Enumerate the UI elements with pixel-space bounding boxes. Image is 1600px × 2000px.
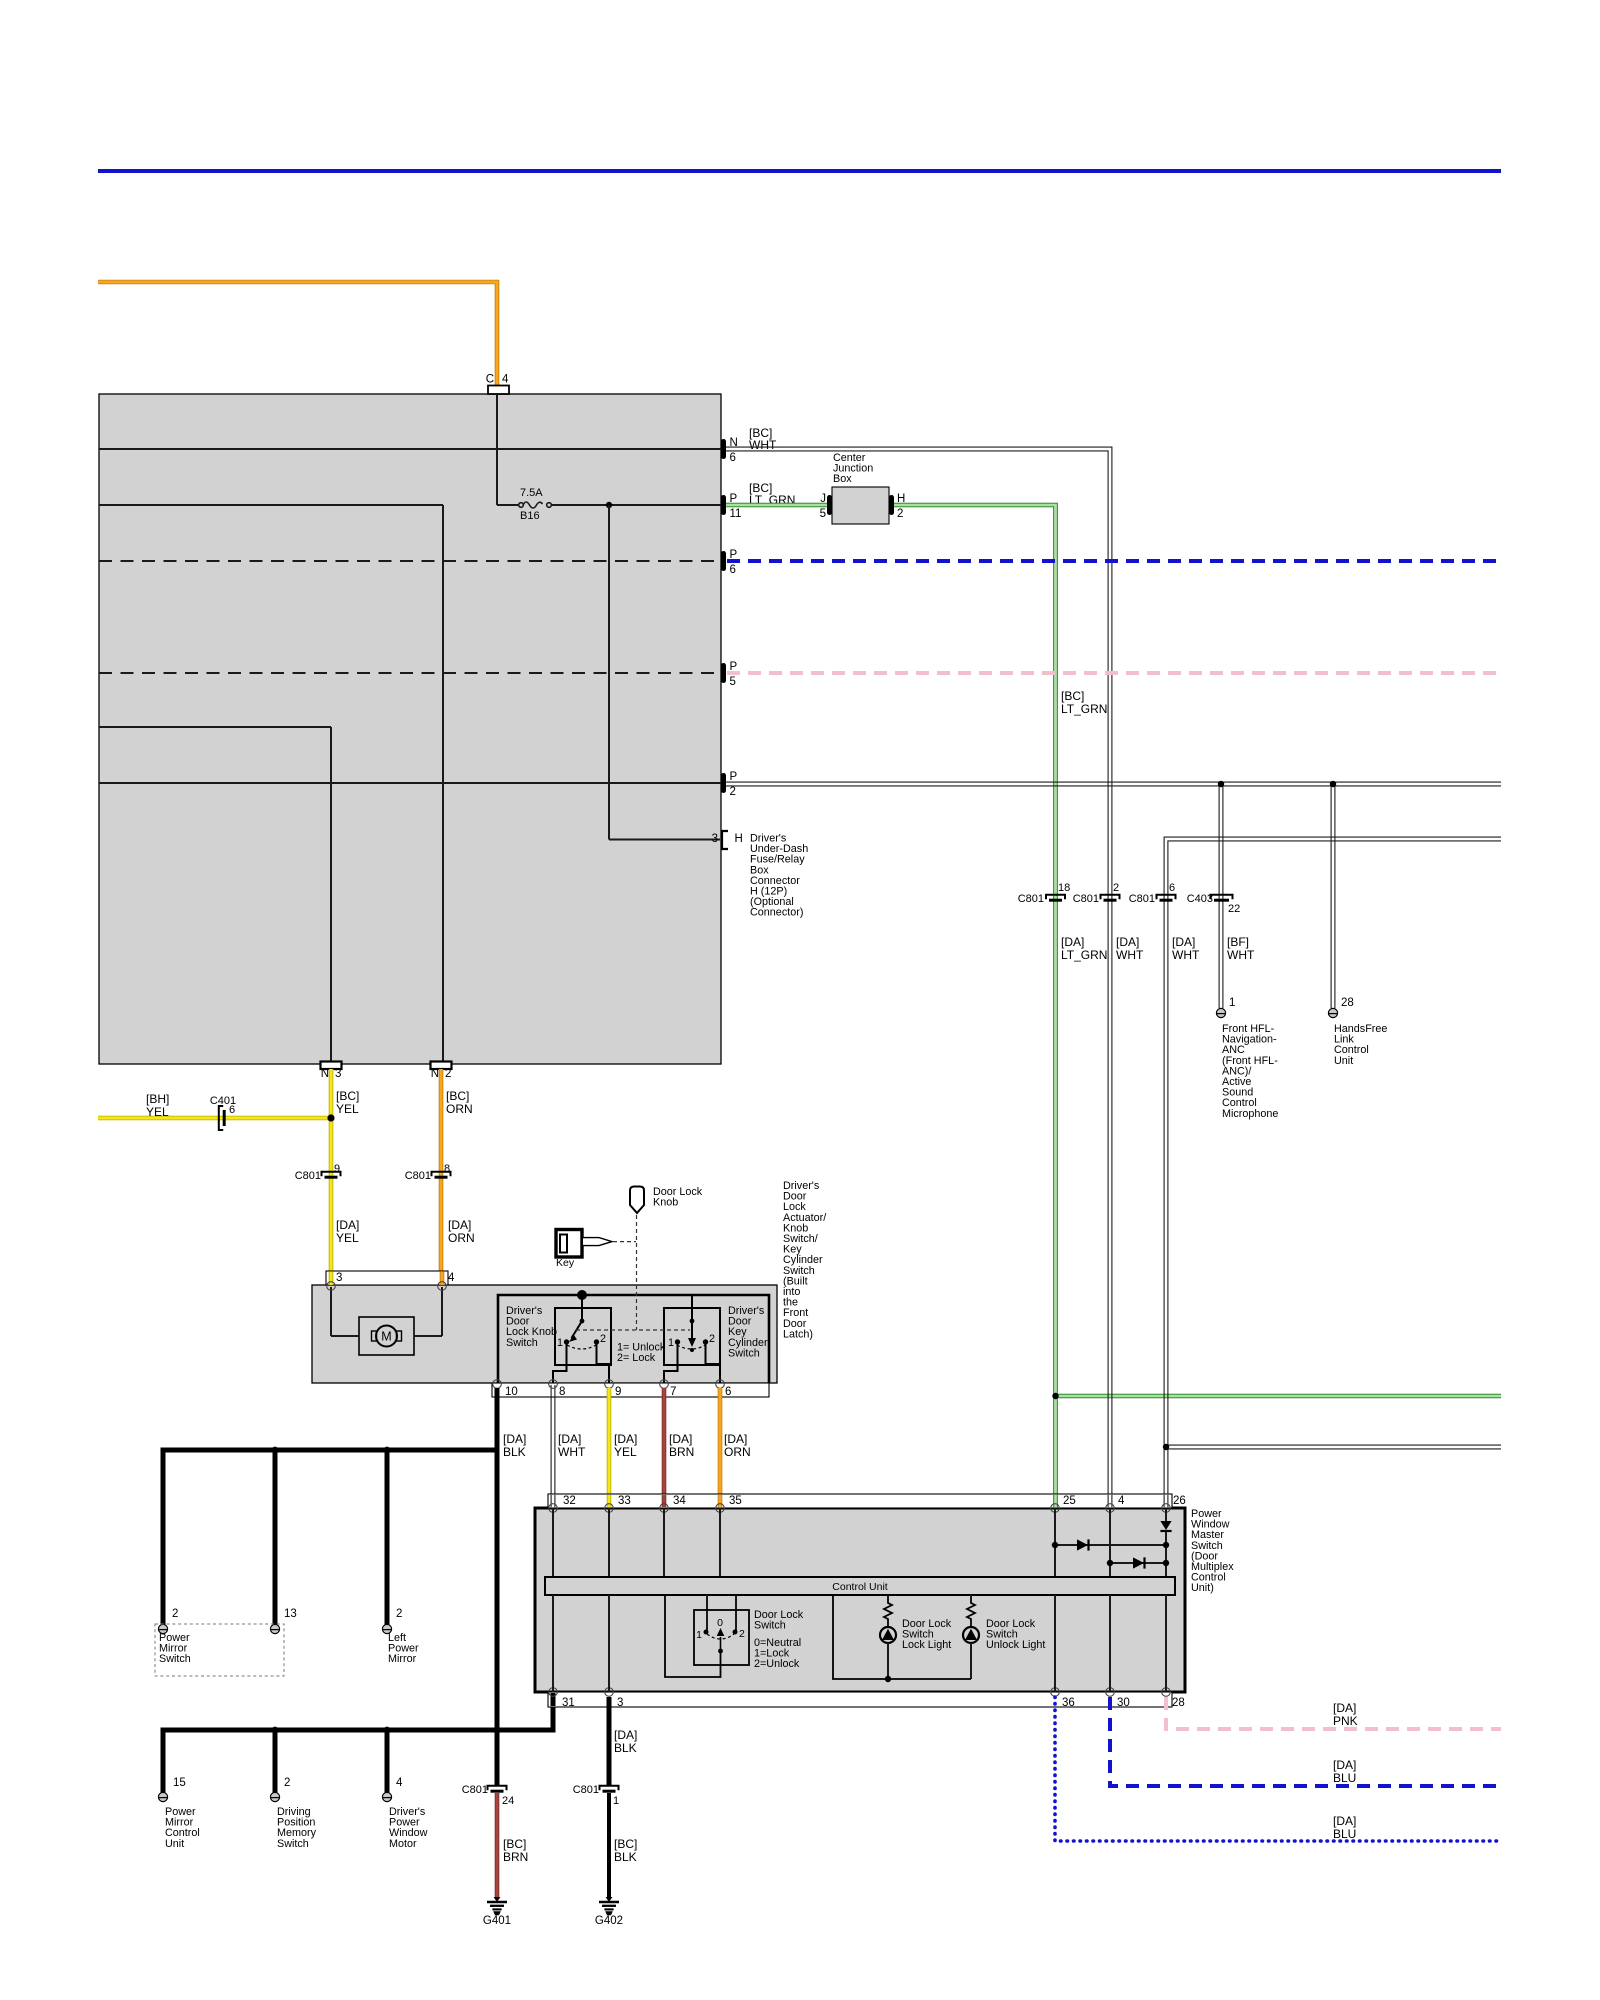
svg-text:Switch: Switch (506, 1337, 538, 1349)
svg-text:[DA]: [DA] (1172, 935, 1195, 949)
svg-text:WHT: WHT (558, 1445, 586, 1459)
svg-text:[DA]: [DA] (336, 1218, 359, 1232)
svg-text:[BC]: [BC] (336, 1089, 359, 1103)
svg-text:3: 3 (335, 1068, 341, 1080)
svg-text:Motor: Motor (389, 1838, 417, 1850)
svg-text:BLU: BLU (1333, 1827, 1356, 1841)
svg-text:4: 4 (448, 1272, 455, 1284)
svg-text:C403: C403 (1187, 893, 1213, 905)
svg-text:Lock Light: Lock Light (902, 1639, 951, 1651)
svg-text:[BC]: [BC] (614, 1837, 637, 1851)
svg-text:YEL: YEL (146, 1105, 169, 1119)
svg-text:3: 3 (712, 833, 718, 845)
svg-text:2: 2 (445, 1068, 451, 1080)
svg-text:6: 6 (229, 1104, 235, 1116)
svg-text:C: C (486, 374, 494, 386)
svg-text:2: 2 (739, 1628, 745, 1640)
svg-text:LT_GRN: LT_GRN (1061, 948, 1107, 962)
svg-text:Latch): Latch) (783, 1328, 813, 1340)
svg-text:Box: Box (833, 473, 852, 485)
svg-text:18: 18 (1058, 882, 1070, 894)
svg-text:[DA]: [DA] (724, 1432, 747, 1446)
svg-text:26: 26 (1173, 1495, 1186, 1507)
svg-text:[DA]: [DA] (1061, 935, 1084, 949)
svg-text:C801: C801 (1018, 893, 1044, 905)
svg-text:31: 31 (562, 1697, 575, 1709)
svg-text:BLU: BLU (1333, 1771, 1356, 1785)
svg-text:11: 11 (730, 508, 742, 520)
svg-text:Control Unit: Control Unit (832, 1581, 888, 1593)
svg-text:YEL: YEL (614, 1445, 637, 1459)
svg-text:33: 33 (618, 1495, 631, 1507)
svg-text:6: 6 (1169, 882, 1175, 894)
svg-text:[DA]: [DA] (614, 1728, 637, 1742)
svg-text:[DA]: [DA] (669, 1432, 692, 1446)
svg-text:M: M (381, 1330, 391, 1344)
svg-text:N: N (321, 1068, 329, 1080)
svg-text:28: 28 (1341, 997, 1354, 1009)
svg-text:[DA]: [DA] (614, 1432, 637, 1446)
svg-text:YEL: YEL (336, 1231, 359, 1245)
svg-text:C801: C801 (1073, 893, 1099, 905)
svg-text:0: 0 (717, 1617, 723, 1629)
svg-text:Switch: Switch (728, 1347, 760, 1359)
svg-text:36: 36 (1062, 1697, 1075, 1709)
svg-text:Unit: Unit (1334, 1055, 1353, 1067)
svg-text:32: 32 (563, 1495, 576, 1507)
svg-text:Mirror: Mirror (388, 1653, 417, 1665)
svg-text:ORN: ORN (446, 1102, 473, 1116)
svg-text:[DA]: [DA] (558, 1432, 581, 1446)
svg-text:B16: B16 (520, 510, 540, 522)
svg-text:1: 1 (1229, 997, 1235, 1009)
svg-text:[BC]: [BC] (446, 1089, 469, 1103)
svg-text:9: 9 (615, 1386, 621, 1398)
svg-text:3: 3 (336, 1272, 342, 1284)
svg-text:8: 8 (444, 1163, 450, 1175)
svg-text:2: 2 (600, 1333, 606, 1345)
svg-text:4: 4 (502, 374, 509, 386)
svg-text:2: 2 (730, 786, 736, 798)
svg-text:34: 34 (673, 1495, 686, 1507)
svg-text:BRN: BRN (669, 1445, 694, 1459)
svg-text:1: 1 (668, 1337, 674, 1349)
svg-text:2: 2 (284, 1777, 290, 1789)
svg-text:[BC]: [BC] (503, 1837, 526, 1851)
svg-text:BLK: BLK (614, 1850, 637, 1864)
svg-text:WHT: WHT (1116, 948, 1144, 962)
svg-text:LT_GRN: LT_GRN (1061, 702, 1107, 716)
svg-text:Microphone: Microphone (1222, 1108, 1278, 1120)
svg-text:P: P (730, 771, 738, 783)
svg-text:[BF]: [BF] (1227, 935, 1249, 949)
svg-text:1: 1 (696, 1629, 702, 1641)
svg-text:[DA]: [DA] (1116, 935, 1139, 949)
svg-text:N: N (431, 1068, 439, 1080)
svg-text:15: 15 (173, 1777, 186, 1789)
svg-text:2=Unlock: 2=Unlock (754, 1658, 800, 1670)
svg-text:G402: G402 (595, 1915, 623, 1927)
svg-text:[BH]: [BH] (146, 1092, 169, 1106)
svg-text:[DA]: [DA] (448, 1218, 471, 1232)
svg-text:5: 5 (730, 676, 736, 688)
svg-text:2: 2 (1113, 882, 1119, 894)
svg-text:YEL: YEL (336, 1102, 359, 1116)
svg-text:[DA]: [DA] (1333, 1758, 1356, 1772)
svg-text:Unit: Unit (165, 1838, 184, 1850)
svg-text:[DA]: [DA] (1333, 1701, 1356, 1715)
svg-text:[DA]: [DA] (1333, 1814, 1356, 1828)
svg-text:3: 3 (617, 1697, 623, 1709)
svg-text:30: 30 (1117, 1697, 1130, 1709)
svg-text:WHT: WHT (1172, 948, 1200, 962)
svg-text:Unit): Unit) (1191, 1582, 1214, 1594)
svg-text:2: 2 (172, 1608, 178, 1620)
svg-text:28: 28 (1172, 1697, 1185, 1709)
svg-text:1: 1 (613, 1795, 619, 1807)
svg-text:BLK: BLK (503, 1445, 526, 1459)
svg-text:ORN: ORN (724, 1445, 751, 1459)
svg-text:C801: C801 (405, 1170, 431, 1182)
svg-text:C801: C801 (1129, 893, 1155, 905)
svg-text:Switch: Switch (277, 1838, 309, 1850)
svg-text:ORN: ORN (448, 1231, 475, 1245)
svg-text:C801: C801 (573, 1784, 599, 1796)
svg-text:6: 6 (730, 564, 736, 576)
svg-text:2: 2 (396, 1608, 402, 1620)
svg-text:Switch: Switch (159, 1653, 191, 1665)
svg-text:WHT: WHT (1227, 948, 1255, 962)
svg-text:4: 4 (1118, 1495, 1125, 1507)
svg-text:BRN: BRN (503, 1850, 528, 1864)
svg-text:6: 6 (730, 452, 736, 464)
svg-text:[DA]: [DA] (503, 1432, 526, 1446)
svg-text:[BC]: [BC] (1061, 689, 1084, 703)
svg-text:PNK: PNK (1333, 1714, 1358, 1728)
svg-text:C801: C801 (295, 1170, 321, 1182)
svg-text:10: 10 (505, 1386, 518, 1398)
svg-text:Connector): Connector) (750, 907, 803, 919)
svg-text:22: 22 (1228, 903, 1240, 915)
svg-text:Switch: Switch (754, 1620, 786, 1632)
svg-text:2: 2 (897, 508, 903, 520)
svg-text:6: 6 (725, 1386, 731, 1398)
svg-text:C801: C801 (462, 1784, 488, 1796)
svg-text:WHT: WHT (749, 438, 777, 452)
svg-text:25: 25 (1063, 1495, 1076, 1507)
svg-text:35: 35 (729, 1495, 742, 1507)
svg-text:8: 8 (559, 1386, 565, 1398)
svg-text:7: 7 (670, 1386, 676, 1398)
svg-text:7.5A: 7.5A (520, 487, 543, 499)
svg-text:Knob: Knob (653, 1197, 678, 1209)
svg-text:13: 13 (284, 1608, 297, 1620)
svg-text:H: H (735, 833, 743, 845)
svg-text:24: 24 (502, 1795, 514, 1807)
svg-text:Key: Key (556, 1257, 575, 1269)
svg-text:Unlock Light: Unlock Light (986, 1639, 1045, 1651)
svg-text:1: 1 (557, 1337, 563, 1349)
svg-text:2: 2 (709, 1333, 715, 1345)
svg-text:2= Lock: 2= Lock (617, 1352, 656, 1364)
svg-text:G401: G401 (483, 1915, 511, 1927)
svg-text:4: 4 (396, 1777, 403, 1789)
svg-text:9: 9 (334, 1163, 340, 1175)
svg-text:5: 5 (820, 508, 826, 520)
svg-text:BLK: BLK (614, 1741, 637, 1755)
